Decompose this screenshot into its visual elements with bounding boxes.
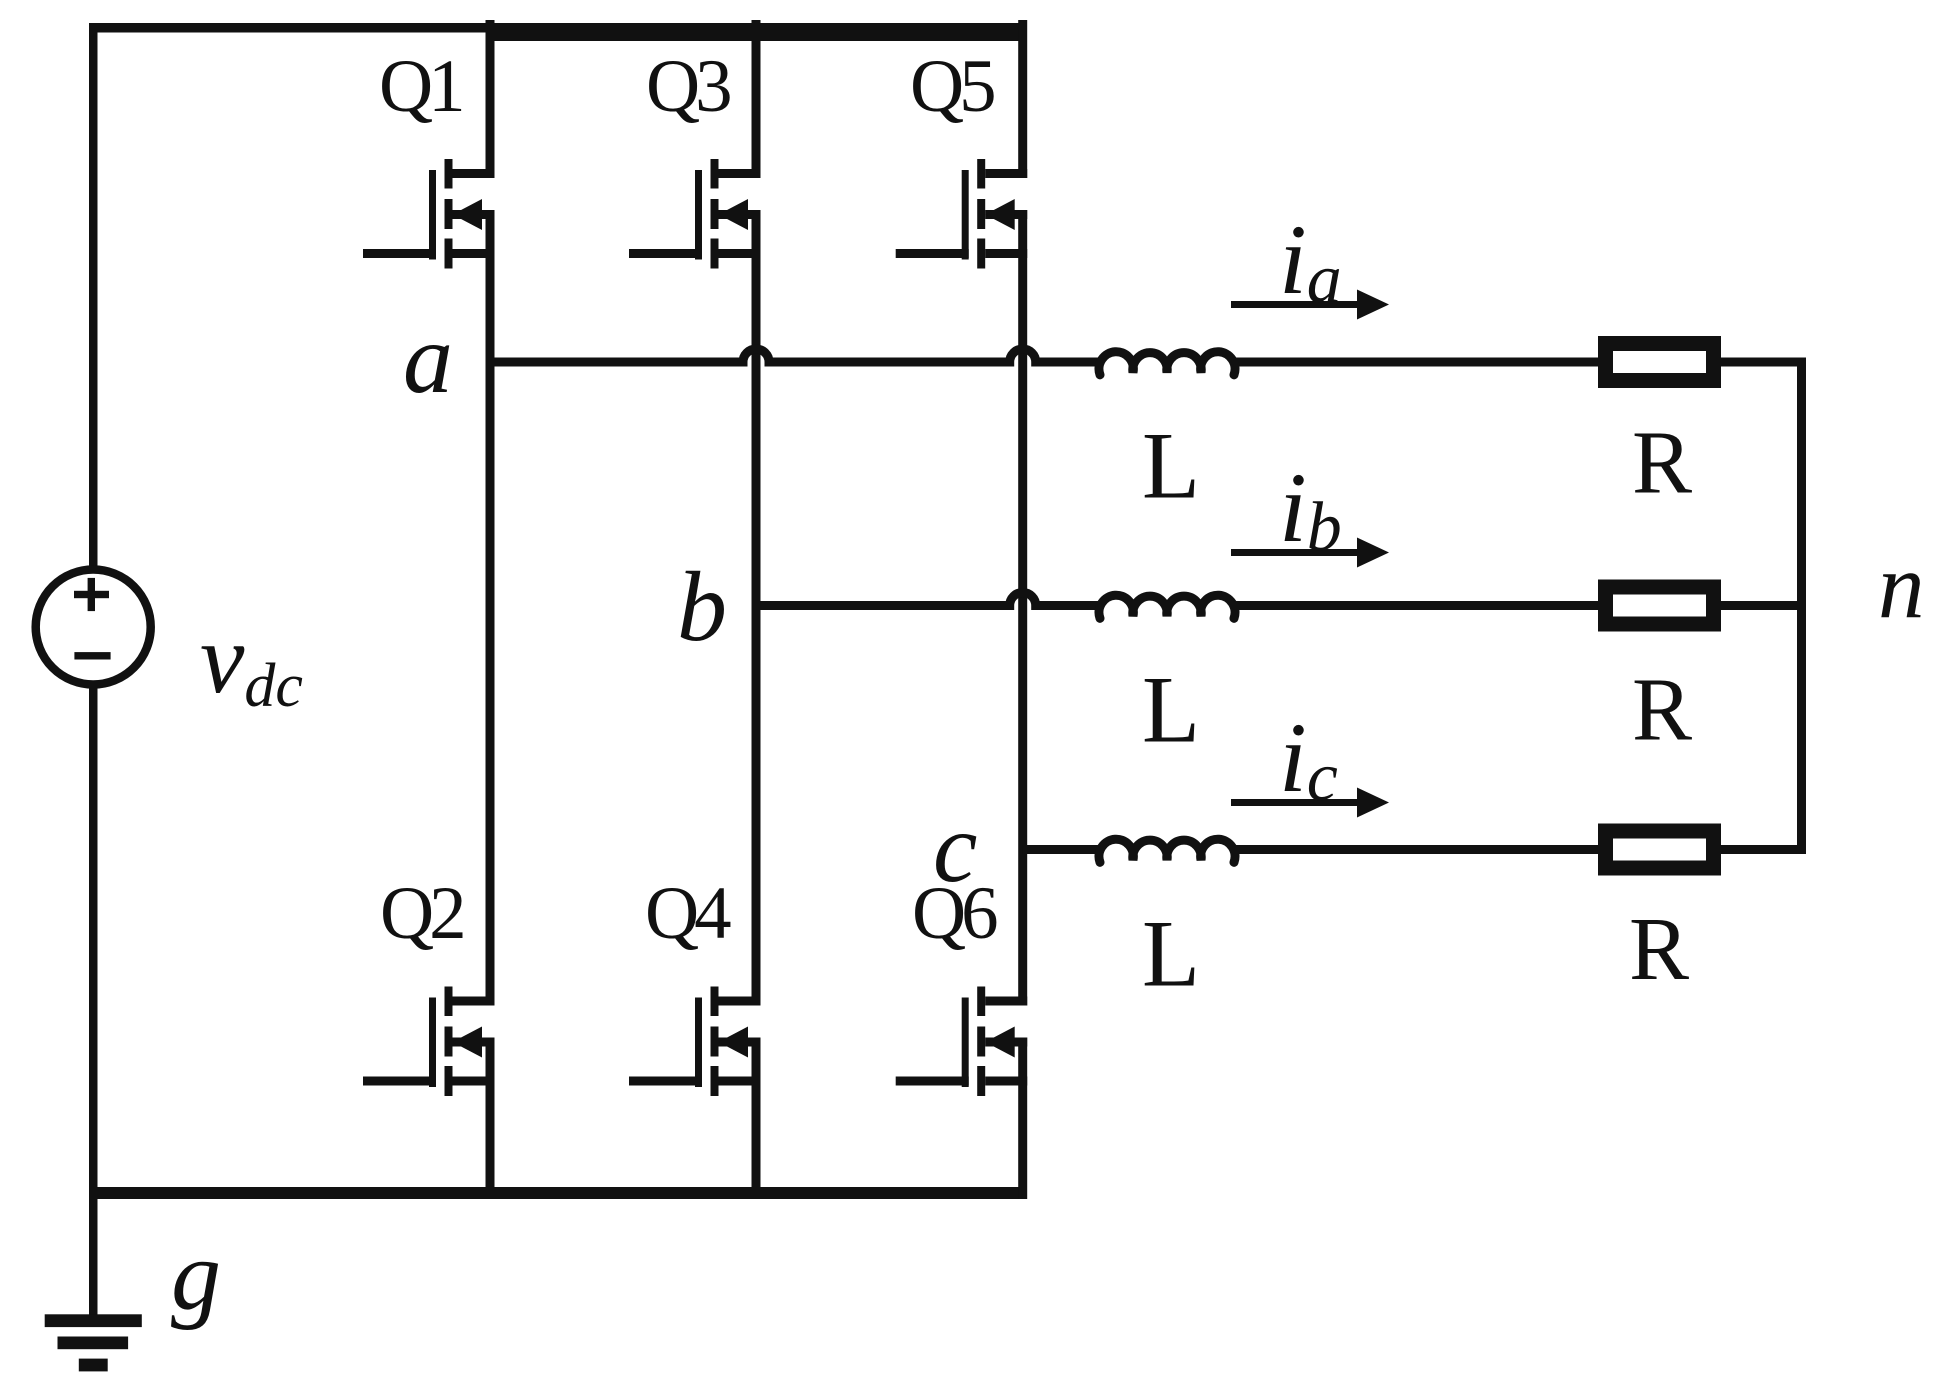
wire: phase c inductor to resistor <box>1231 845 1598 854</box>
wire: phase a resistor to bus <box>1721 358 1806 367</box>
current arrow i_c <box>1231 788 1389 818</box>
wire: phase a inductor to resistor <box>1231 358 1598 367</box>
wire: bottom rail <box>89 1187 1027 1199</box>
wire: phase b inductor to resistor <box>1231 601 1598 610</box>
transistor Q5 <box>896 159 1027 269</box>
svg-text:L: L <box>1142 901 1200 1007</box>
wire: neutral bus vertical <box>1797 358 1806 855</box>
wire: left vertical (source - to ground) <box>89 685 98 1315</box>
current arrow i_a <box>1231 290 1389 320</box>
svg-text:Q2: Q2 <box>380 872 463 955</box>
wire: leg c vertical segments <box>1018 20 1027 1199</box>
wire: phase c line (node c to inductor) <box>1023 845 1100 854</box>
svg-text:c: c <box>933 792 977 903</box>
wire: phase a line with crossover hops <box>490 349 1100 362</box>
svg-text:n: n <box>1878 535 1925 638</box>
svg-text:R: R <box>1629 900 1689 999</box>
transistor Q6 <box>896 987 1027 1097</box>
voltage source v_dc (circle) <box>36 570 151 685</box>
wire: phase b line with crossover hop <box>756 593 1100 606</box>
svg-text:Q3: Q3 <box>646 45 730 128</box>
minus sign <box>74 652 110 659</box>
wire: leg a vertical segments <box>486 20 495 1199</box>
wire: left vertical (top rail to source +) <box>89 23 98 570</box>
svg-text:R: R <box>1632 413 1692 512</box>
inductor L (phase b) <box>1099 595 1235 618</box>
resistor R (phase c) <box>1598 824 1721 876</box>
transistor Q2 <box>363 987 495 1097</box>
svg-text:b: b <box>677 551 727 662</box>
svg-text:g: g <box>171 1220 221 1331</box>
wire: phase c resistor to bus <box>1721 845 1806 854</box>
transistor Q4 <box>629 987 761 1097</box>
resistor R (phase b) <box>1598 580 1721 632</box>
svg-text:R: R <box>1632 660 1692 759</box>
wire: phase b resistor to bus <box>1721 601 1806 610</box>
wire: leg b vertical segments <box>752 20 761 1199</box>
resistor R (phase a) <box>1598 336 1721 388</box>
transistor Q3 <box>629 159 761 269</box>
svg-text:Q1: Q1 <box>379 45 461 128</box>
svg-text:Q4: Q4 <box>645 872 731 955</box>
svg-text:Q5: Q5 <box>910 45 994 128</box>
inductor L (phase c) <box>1099 839 1235 862</box>
wire: top rail <box>89 23 1027 41</box>
plus sign <box>74 578 109 611</box>
ground symbol <box>45 1314 142 1371</box>
transistor Q1 <box>363 159 495 269</box>
current arrow i_b <box>1231 538 1389 568</box>
svg-text:a: a <box>403 303 453 414</box>
svg-text:L: L <box>1142 413 1200 519</box>
inductor L (phase a) <box>1099 352 1235 375</box>
svg-text:L: L <box>1142 657 1200 763</box>
